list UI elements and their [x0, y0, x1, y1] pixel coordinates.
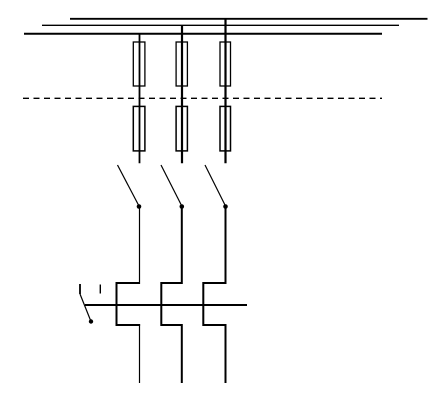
wire: phase 1 drop upper segment: [139, 207, 141, 283]
earthing switch auxiliary tick: [99, 285, 101, 294]
fuse F4 row2 phase1: [133, 106, 145, 150]
earthing switch hinge dot: [89, 319, 93, 323]
fuse F5 row2 phase2: [176, 106, 187, 150]
switch Q1 hinge dot: [137, 204, 142, 209]
switch Q1 blade (phase 1): [118, 165, 140, 206]
earthing switch fixed contact tick: [79, 284, 81, 294]
dashed boundary line: [23, 97, 382, 99]
switch Q2 blade (phase 2): [161, 165, 182, 206]
wire: phase 1 drawout jog: [117, 283, 141, 325]
wire: horizontal link line: [85, 304, 247, 306]
bus bar L2 (middle): [42, 24, 399, 26]
switch Q3 blade (phase 3): [205, 165, 226, 206]
wire: phase 3 drop with drawout jog: [203, 207, 225, 384]
wire: phase 2 drop with drawout jog: [161, 207, 182, 384]
fuse F3 row1 phase3: [220, 42, 231, 86]
fuse F1 row1 phase1: [133, 42, 145, 86]
switch Q2 hinge dot: [180, 204, 185, 209]
wire: phase 2 tap from bus L2: [181, 25, 183, 163]
bus bar L3 (bottom): [24, 33, 382, 35]
fuse F2 row1 phase2: [176, 42, 187, 86]
wire: phase 1 drop lower segment: [139, 324, 141, 383]
earthing switch blade: [80, 294, 91, 322]
switch Q3 hinge dot: [223, 204, 228, 209]
wire: phase 1 tap from bus L3: [139, 34, 141, 164]
bus bar L1 (top): [70, 18, 428, 20]
wire: phase 3 tap from bus L1: [224, 19, 226, 164]
fuse F6 row2 phase3: [220, 106, 231, 150]
